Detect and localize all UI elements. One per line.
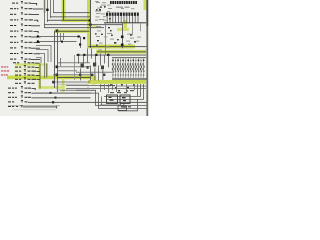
input row 19: [8, 95, 31, 98]
relay internal marks: [109, 97, 127, 101]
extra scan text specks: [95, 1, 139, 50]
relay box K2: [120, 95, 130, 103]
pink net label 1: [1, 66, 8, 68]
pink net label 2: [1, 70, 9, 72]
connector bus wire y22.5: [104, 22, 146, 23]
loop wire 1: [60, 90, 148, 105]
junction dots on x122: [121, 36, 124, 39]
input row 9: [10, 46, 40, 49]
input row 7: [10, 35, 41, 38]
bus wire V1: [43, 0, 46, 28]
bus wire V3: [49, 0, 52, 18]
highlighted trace: vertical green at x63 top: [54, 0, 147, 54]
loop verticals extra: [136, 84, 139, 96]
input row 16 (in block): [15, 81, 35, 84]
highlighted trace: big band y77 left half: [7, 76, 96, 80]
highlighted trace: L at y87 x38-65: [38, 77, 96, 93]
wires east from block column: [57, 61, 90, 64]
wire y27 long: [44, 26, 104, 29]
input row 3: [10, 12, 39, 15]
highlighted block outline around left rows: [15, 63, 48, 89]
loop wire 5: [118, 99, 138, 110]
K3 leads: [119, 103, 122, 106]
drop wire x122 below connector: [121, 23, 124, 48]
highlighted trace: connector drop green x125: [124, 20, 127, 31]
text below band: [100, 85, 115, 86]
wire y20 inside green: [47, 19, 91, 22]
highlighted trace: big band y82 right half: [88, 80, 146, 84]
pink net label 3: [1, 74, 8, 76]
vertical bus drop left of block: [53, 31, 56, 88]
junction dot on V2: [46, 9, 48, 11]
connector J1 label text: [116, 7, 130, 8]
input row 18: [8, 91, 31, 94]
input row 6: [10, 29, 39, 33]
nested corner wires turning down: [36, 46, 51, 79]
dark wire inside x88 green vertical: [89, 0, 92, 48]
array bottom dark rail: [112, 78, 147, 79]
page edge dark line right: [146, 0, 148, 116]
small blobs row y74: [79, 74, 105, 76]
input row 11b: [13, 61, 40, 64]
paper background: [0, 0, 150, 116]
drops from band to loops: [100, 84, 135, 93]
text noise upper-middle-right: [95, 2, 141, 42]
rail y55: [76, 54, 146, 57]
wire y24 long: [44, 23, 122, 26]
junction dots in block column: [56, 66, 59, 69]
dark wire inside x63 green vertical: [62, 0, 65, 21]
extra dark specks: [95, 6, 132, 45]
loop wire 2: [36, 93, 148, 108]
upper-left box outline mid page: [57, 84, 88, 90]
wire from row 18: [32, 92, 92, 95]
highlighted trace: short green y26 x84-97: [89, 25, 98, 28]
input row 2: [10, 7, 47, 10]
wire y12 from V4 east: [53, 11, 91, 14]
input row 14 (in block): [15, 73, 40, 76]
input row 17: [8, 86, 36, 90]
highlighted trace: horizontal green y20 x63-89: [62, 19, 91, 23]
highlighted trace: horizontal green y52 x96-146: [96, 50, 146, 54]
connector J1 pin row 2: [106, 13, 139, 16]
wire y41.5 long with junction dots: [38, 40, 77, 43]
input row 1: [12, 1, 37, 5]
component drops to band: [80, 66, 103, 81]
transistor Q3: [101, 66, 104, 70]
connector J1 pin row 1: [110, 1, 137, 4]
component drops: [78, 49, 109, 68]
wire from row 19: [32, 96, 91, 99]
highlighted trace: horizontal green y46 x88-135: [87, 45, 135, 49]
wire y85: [66, 84, 114, 87]
short verticals under green band: [59, 33, 62, 42]
connector J1 pin leads: [107, 16, 139, 23]
array top rail: [112, 56, 146, 59]
input row 21: [8, 105, 23, 107]
input row 5: [10, 24, 40, 27]
drop wire x132: [131, 23, 134, 35]
vertical wire x74: [73, 55, 76, 80]
highlighter wash over block rows: [14, 65, 48, 80]
faint bottom wire: [8, 104, 60, 107]
input row 10: [10, 52, 40, 55]
highlighted trace: green at top right page edge: [144, 0, 147, 10]
loop wire 3: [104, 84, 141, 96]
input row 12 (in block): [15, 65, 39, 68]
drop wire x105: [104, 23, 107, 55]
junction on row 20 wire: [52, 101, 54, 103]
wire y16 from V3 east: [50, 15, 91, 18]
bus wire V4: [52, 0, 55, 13]
wire y36.5 long with junction dots: [38, 35, 81, 38]
array element group: [112, 58, 114, 78]
wire under relays: [100, 104, 120, 107]
dark wires inside green verticals: [39, 64, 42, 89]
dark wire inside y52 green horizontal: [97, 50, 146, 53]
small part: [87, 66, 89, 69]
transistor Q2: [93, 63, 96, 67]
dark wire inside y46 green horizontal: [88, 45, 146, 48]
wire y90 segment: [76, 89, 96, 92]
highlighted trace: vertical green at x88 top: [87, 0, 91, 48]
junction dot on V5: [56, 30, 59, 33]
input row 8: [10, 40, 40, 43]
wire y88: [66, 87, 146, 90]
input row 20: [8, 100, 28, 103]
loop wire 4: [106, 84, 144, 99]
bus wire V2: [46, 0, 49, 22]
transistor Q1: [81, 64, 84, 68]
input row 11: [10, 57, 40, 60]
highlighted stub on bus V1 top: [43, 0, 46, 13]
white strip beyond page edge: [148, 0, 150, 116]
small box bottom K3: [118, 106, 126, 111]
highlighted trace: horizontal green y30 x55-90: [54, 30, 90, 33]
relay box K1: [107, 95, 118, 103]
wire y72: [76, 71, 114, 74]
input row 4: [10, 18, 38, 22]
wire y31 inside green: [57, 30, 90, 33]
drop wire x140: [139, 23, 142, 31]
small marks bottom right: [110, 90, 134, 108]
input row 13 (in block): [15, 69, 40, 72]
input row 15 (in block): [15, 77, 40, 80]
wire from row 20 full width: [28, 101, 148, 104]
vertical x80 with dots: [79, 37, 82, 48]
junction dot green wire: [89, 19, 91, 21]
